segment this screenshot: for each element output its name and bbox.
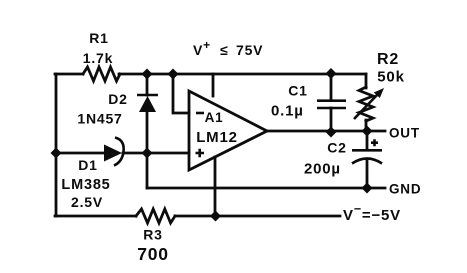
node junction ground rail / C2 <box>362 183 373 194</box>
svg-text:A1: A1 <box>205 110 224 125</box>
svg-text:R3: R3 <box>143 227 163 243</box>
node junction top rail / C1 <box>326 68 337 79</box>
svg-text:C1: C1 <box>288 83 308 99</box>
wire V+ supply pin <box>212 74 215 96</box>
label OUT <box>389 126 420 141</box>
wire bottom V- rail left segment <box>55 215 136 218</box>
label GND <box>389 182 421 197</box>
resistor R1 <box>83 30 120 81</box>
wire top V+ rail left segment <box>55 73 83 76</box>
op-amp A1 LM12 <box>189 91 267 170</box>
svg-text:OUT: OUT <box>389 126 420 141</box>
wire output line <box>267 130 385 133</box>
wire ground rail <box>147 187 385 190</box>
capacitor C1 0.1u <box>271 74 346 132</box>
wire top V+ rail right segment <box>119 73 366 76</box>
svg-text:GND: GND <box>389 182 421 197</box>
diode D2 1N457 <box>77 74 158 153</box>
svg-text:LM12: LM12 <box>196 129 238 146</box>
svg-text:R2: R2 <box>377 51 399 68</box>
node junction top rail / D2 <box>142 69 153 80</box>
label V+ <= 75V <box>193 38 263 58</box>
svg-text:R1: R1 <box>89 30 109 46</box>
svg-text:200µ: 200µ <box>304 161 341 178</box>
wire left rail <box>55 74 58 216</box>
svg-text:50k: 50k <box>377 69 404 86</box>
node junction top rail / inverting input <box>168 69 179 80</box>
svg-text:D2: D2 <box>108 91 128 107</box>
node junction output line / C1 <box>326 127 337 138</box>
wire bottom V- rail right segment <box>175 215 340 218</box>
svg-text:D1: D1 <box>78 157 98 173</box>
node junction D1 / D2 / non-inverting input <box>142 148 153 159</box>
node junction V- rail / op-amp V- pin <box>210 211 221 222</box>
resistor R3 700 <box>136 209 175 264</box>
label V- = -5V <box>343 202 401 224</box>
wire LM385 anode to ground rail <box>146 153 149 188</box>
svg-text:LM385: LM385 <box>61 177 110 193</box>
svg-text:0.1µ: 0.1µ <box>271 103 304 120</box>
potentiometer R2 50k <box>354 51 405 131</box>
svg-text:700: 700 <box>137 244 169 264</box>
capacitor C2 200u (polarized) <box>304 131 382 188</box>
node junction left rail / D1 <box>51 148 62 159</box>
svg-text:2.5V: 2.5V <box>71 194 103 210</box>
diode D1 LM385 2.5V <box>56 138 189 211</box>
svg-text:1.7k: 1.7k <box>83 50 113 66</box>
svg-text:C2: C2 <box>327 140 347 156</box>
svg-text:1N457: 1N457 <box>77 111 122 127</box>
wire V- supply pin <box>214 157 217 216</box>
node junction output line / R2 / C2 (OUT node) <box>362 126 373 137</box>
wire inverting input from top rail <box>173 74 189 113</box>
